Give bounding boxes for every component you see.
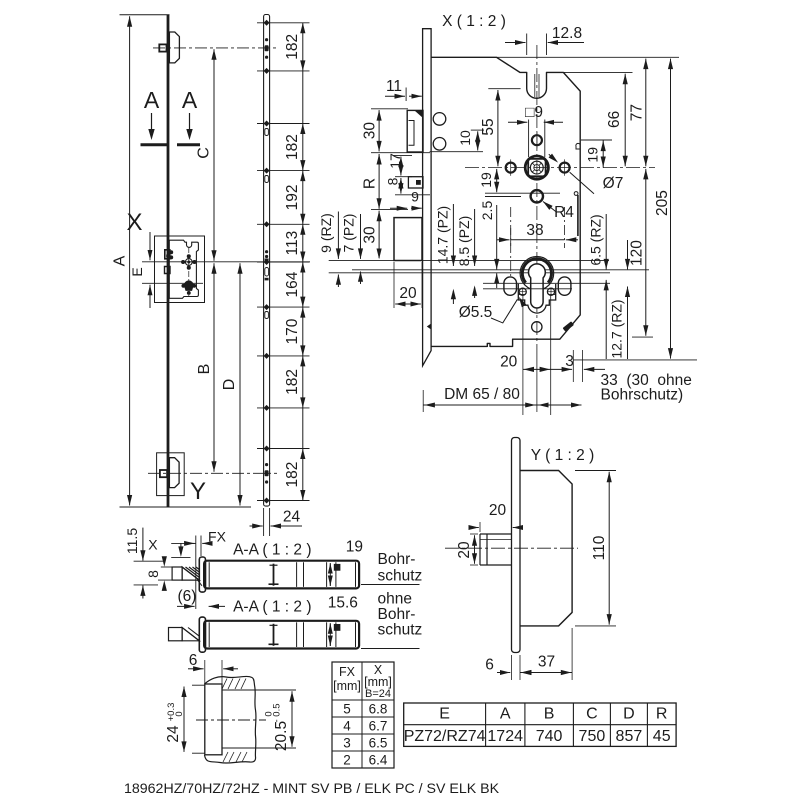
svg-text:14.7 (PZ): 14.7 (PZ)	[435, 206, 451, 264]
PZ reference line upper	[352, 269, 649, 271]
svg-text:164: 164	[284, 271, 301, 297]
lock faceplate (edge bar)	[423, 29, 432, 366]
auxiliary snib box	[408, 177, 423, 188]
svg-text:6.4: 6.4	[369, 753, 388, 768]
edge slot marks - hook 1	[265, 129, 269, 136]
mini cylinder side dots	[182, 284, 185, 287]
svg-text:20: 20	[500, 354, 518, 371]
dimension D line (857)	[239, 263, 241, 505]
dimension square 9 (spindle)	[508, 121, 527, 123]
Y center line (dash-dot)	[445, 547, 578, 549]
svg-text:30: 30	[362, 122, 379, 140]
section inner ribs	[208, 622, 210, 647]
svg-text:□9: □9	[525, 104, 543, 121]
section center pin	[273, 624, 275, 646]
rail front face (thick bar)	[167, 15, 170, 507]
dimension A line (overall height 1724)	[129, 16, 131, 505]
screw hole right	[547, 288, 554, 295]
dimension 2.5	[496, 205, 498, 258]
svg-text:192: 192	[284, 185, 301, 211]
svg-text:6.5: 6.5	[369, 736, 388, 751]
cylinder center line horizontal	[483, 282, 610, 284]
section body (case profile)	[204, 621, 359, 649]
section body (case profile)	[204, 561, 359, 589]
svg-text:6: 6	[485, 657, 494, 674]
dimension 20 (stem height) rotated	[470, 533, 478, 535]
hole below follower (R4)	[531, 190, 543, 202]
roller tangent line	[430, 151, 483, 153]
dimension 6 (Y faceplate)	[511, 655, 513, 680]
svg-text:110: 110	[591, 535, 608, 560]
svg-text:12.8: 12.8	[552, 25, 582, 42]
mini cylinder	[185, 281, 194, 290]
follower center lines	[465, 167, 655, 169]
dimension E line	[149, 247, 151, 260]
svg-text:24: 24	[165, 725, 182, 743]
svg-text:120: 120	[629, 240, 646, 266]
svg-text:10: 10	[457, 130, 473, 146]
dimension 9 (snib width)	[390, 207, 407, 209]
hatch marks top	[222, 679, 227, 690]
svg-text:D: D	[221, 379, 238, 391]
svg-text:A: A	[112, 255, 129, 266]
svg-text:17: 17	[387, 153, 403, 169]
svg-text:Bohr-: Bohr-	[378, 551, 416, 568]
svg-text:A-A ( 1 : 2 ): A-A ( 1 : 2 )	[233, 542, 311, 559]
dimension 10	[471, 129, 484, 131]
deadbolt bottom reference line	[329, 259, 609, 261]
svg-text:[mm]: [mm]	[333, 679, 361, 693]
edge slot marks - hook 3	[265, 312, 269, 319]
svg-text:4: 4	[343, 719, 351, 734]
Y keep body	[520, 471, 572, 626]
svg-text:6.7: 6.7	[369, 719, 388, 734]
dimension 110	[575, 470, 616, 472]
svg-text:schutz: schutz	[378, 622, 423, 639]
dimension 66	[563, 71, 632, 73]
square spindle extension lines	[528, 120, 530, 158]
mini snib box	[165, 267, 171, 274]
svg-text:5: 5	[343, 702, 351, 717]
svg-text:X: X	[148, 537, 158, 553]
top latch hook body	[169, 32, 179, 63]
svg-text:[mm]: [mm]	[364, 675, 392, 689]
svg-text:E: E	[129, 267, 145, 276]
svg-text:A: A	[144, 87, 160, 113]
X-area cylinder center line	[142, 282, 203, 284]
latch bolt section 2	[169, 628, 183, 641]
svg-text:857: 857	[616, 728, 643, 745]
svg-text:11.5: 11.5	[124, 528, 140, 554]
dimension 24 (rail width)	[263, 508, 265, 536]
Y bolt stem	[480, 534, 512, 565]
svg-text:8: 8	[385, 177, 401, 185]
leader d7	[549, 154, 556, 160]
top latch center line (dash-dot)	[153, 47, 277, 49]
dimension 6 (plate thickness)	[204, 660, 206, 684]
X-area handle center line	[142, 261, 310, 263]
edge slot marks - top latch	[265, 45, 269, 51]
main table row divider	[404, 724, 676, 726]
dimension 8 (latch height)	[163, 558, 165, 564]
dimension 9 (RZ)	[337, 212, 339, 250]
svg-text:3: 3	[565, 353, 574, 370]
mini hook pocket (dark)	[165, 250, 170, 259]
svg-text:A-A ( 1 : 2 ): A-A ( 1 : 2 )	[233, 599, 311, 616]
svg-text:750: 750	[579, 728, 606, 745]
svg-text:Ø7: Ø7	[603, 175, 624, 192]
svg-text:113: 113	[284, 231, 301, 256]
svg-text:18962HZ/70HZ/72HZ - MINT SV PB: 18962HZ/70HZ/72HZ - MINT SV PB / ELK PC …	[124, 781, 500, 797]
svg-text:77: 77	[628, 104, 645, 121]
section center pin	[273, 564, 275, 586]
Y stem inner line	[480, 539, 512, 541]
section arrow A left - arrow	[151, 113, 153, 131]
svg-text:9: 9	[411, 189, 419, 205]
dimension 17	[393, 154, 412, 156]
cylinder plate inner line	[518, 294, 524, 296]
edge view tick lines	[257, 22, 310, 24]
dimension 20 (cylinder screw)	[523, 368, 551, 370]
extension lines below cylinder	[522, 295, 524, 415]
cylinder slot center line	[483, 288, 572, 290]
hole above follower	[532, 135, 542, 145]
svg-text:55: 55	[480, 118, 497, 135]
svg-text:Bohrschutz): Bohrschutz)	[601, 387, 684, 404]
svg-text:E: E	[439, 706, 450, 723]
dimension 8	[395, 194, 430, 196]
lock case outline	[431, 57, 580, 346]
section faceplate bar	[199, 557, 205, 592]
svg-text:6.8: 6.8	[369, 702, 388, 717]
top latch small square stud	[159, 44, 166, 51]
deadbolt housing	[394, 218, 422, 261]
svg-text:6.5 (RZ): 6.5 (RZ)	[587, 214, 603, 265]
svg-text:B: B	[196, 364, 213, 375]
section inner ribs	[208, 562, 210, 587]
detail X boundary box	[155, 236, 205, 303]
dimension 37	[571, 628, 573, 680]
section faceplate bar	[199, 617, 205, 652]
svg-text:PZ72/RZ74: PZ72/RZ74	[404, 728, 486, 745]
FX table column divider	[361, 662, 363, 768]
rail edge profile	[264, 15, 270, 507]
dimension 7 (PZ)	[360, 214, 362, 249]
section arrow A right - arrow	[189, 113, 191, 131]
dimension 19 (follower to hole)	[496, 169, 498, 192]
svg-text:20: 20	[456, 541, 473, 559]
svg-text:19: 19	[585, 147, 601, 163]
faceplate weld mark	[427, 324, 431, 330]
svg-text:9 (RZ): 9 (RZ)	[318, 213, 334, 253]
svg-text:37: 37	[538, 654, 555, 671]
section dark block	[334, 564, 341, 571]
follower hub	[525, 156, 548, 179]
cylinder side slot left	[504, 277, 517, 295]
svg-text:B: B	[544, 706, 555, 723]
chain dimension line for hole spacing	[302, 23, 304, 71]
section cut plane A left (thick bar)	[141, 143, 168, 146]
hole right of follower (d7)	[560, 163, 570, 173]
profile cylinder keyway	[529, 264, 546, 308]
dimension 30 (deadbolt housing height)	[378, 211, 380, 259]
cylinder escutcheon plate	[518, 284, 555, 313]
svg-text:1724: 1724	[487, 728, 523, 745]
dimension 12.8 (notch width)	[526, 34, 528, 56]
strike center line	[196, 719, 266, 721]
svg-text:182: 182	[284, 34, 301, 60]
svg-text:3: 3	[343, 736, 351, 751]
svg-text:ohne: ohne	[378, 591, 412, 608]
screw hole left (d5.5)	[519, 288, 526, 295]
svg-text:38: 38	[526, 222, 543, 239]
svg-text:D: D	[623, 706, 635, 723]
mini cylinder cross line	[182, 285, 196, 287]
section inner height dim	[329, 563, 331, 570]
leader R4	[543, 202, 557, 213]
svg-text:15.6: 15.6	[328, 595, 358, 612]
FX table frame	[332, 662, 394, 768]
svg-text:45: 45	[653, 728, 671, 745]
svg-text:C: C	[586, 706, 598, 723]
bottom latch center line (dash-dot)	[148, 472, 277, 474]
svg-text:182: 182	[284, 462, 301, 488]
dimension 55	[488, 88, 520, 90]
dimension 120	[632, 336, 653, 338]
svg-text:DM 65 / 80: DM 65 / 80	[444, 386, 520, 403]
dimension B line (740)	[213, 263, 215, 472]
svg-text:R: R	[362, 178, 379, 189]
cylinder side slot right	[558, 277, 571, 295]
detail Y boundary box	[157, 453, 185, 496]
svg-text:740: 740	[536, 728, 563, 745]
Y faceplate bar	[512, 438, 521, 653]
svg-text:schutz: schutz	[378, 568, 423, 585]
chain dimension connector 70.9-123.5	[302, 71, 304, 124]
leader d5.5	[491, 299, 517, 323]
latch bolt section 1	[172, 567, 182, 580]
section cut plane A right (thick bar)	[177, 143, 200, 146]
mini follower vertical center line	[188, 247, 190, 296]
svg-text:24: 24	[283, 509, 301, 526]
svg-text:R4: R4	[554, 204, 574, 221]
hatch marks bottom	[223, 752, 228, 762]
hole below cylinder	[532, 322, 542, 332]
svg-text:A: A	[500, 706, 511, 723]
svg-text:- 0.5: - 0.5	[272, 703, 283, 722]
svg-text:R: R	[656, 706, 668, 723]
case top-right notch step	[576, 143, 580, 149]
svg-text:19: 19	[478, 172, 494, 188]
leader to section 2	[361, 648, 420, 650]
rail top reference line	[120, 14, 170, 16]
svg-text:Ø5.5: Ø5.5	[459, 304, 493, 321]
roller bolt lower	[433, 138, 446, 151]
bottom latch square stud	[160, 470, 167, 477]
dimension 11 (hook projection)	[405, 88, 407, 102]
mini hook rollers	[170, 251, 173, 254]
dimension 3 (bohrschutz)	[572, 350, 574, 382]
svg-text:X ( 1 : 2 ): X ( 1 : 2 )	[442, 13, 506, 30]
svg-text:X: X	[126, 209, 142, 236]
hole column center lines (dash)	[510, 207, 512, 277]
dimension 20 (deadbolt width)	[393, 262, 395, 308]
profile cylinder outer ring	[520, 257, 554, 291]
svg-text:182: 182	[284, 369, 301, 395]
dimension 77	[497, 56, 680, 58]
edge view node diamonds	[264, 20, 270, 26]
leader to section 1	[361, 584, 420, 586]
svg-text:FX: FX	[339, 665, 356, 679]
svg-text:8.5 (PZ): 8.5 (PZ)	[456, 216, 472, 267]
dimension 19 (right side)	[581, 139, 612, 141]
section inner height dim	[329, 623, 331, 630]
svg-text:7 (PZ): 7 (PZ)	[341, 214, 357, 253]
dimension 205	[573, 359, 697, 361]
svg-text:A: A	[182, 87, 198, 113]
svg-text:66: 66	[606, 111, 623, 128]
svg-text:Y: Y	[190, 478, 206, 505]
svg-text:B=24: B=24	[365, 688, 391, 700]
svg-text:30: 30	[362, 226, 379, 244]
svg-text:C: C	[196, 147, 213, 159]
dimension 20 (stem length)	[479, 522, 481, 532]
edge slot marks - hook 2	[265, 176, 269, 183]
main table column dividers	[485, 703, 487, 746]
dimension 20.5 0/-0.5	[222, 689, 296, 691]
svg-text:205: 205	[654, 190, 671, 216]
svg-text:2: 2	[343, 753, 351, 768]
svg-text:(6): (6)	[178, 588, 197, 605]
svg-text:11: 11	[386, 78, 402, 95]
mini follower satellite dots	[187, 255, 190, 258]
svg-text:2.5: 2.5	[479, 201, 495, 221]
roller bolt upper	[433, 113, 446, 126]
dimension DM 65 / 80	[422, 390, 424, 412]
frame wood outline (wavy)	[205, 676, 256, 763]
dimension 8.5 (PZ)	[474, 209, 476, 256]
svg-text:170: 170	[284, 318, 301, 344]
svg-text:FX: FX	[208, 529, 227, 545]
svg-text:19: 19	[346, 539, 363, 556]
dimension C line (750)	[213, 49, 215, 261]
drill-protection plate on rear edge	[577, 195, 579, 236]
strike plate section	[205, 684, 222, 755]
svg-text:8: 8	[145, 570, 161, 578]
dimension 11.5 (section)	[142, 528, 144, 551]
mini follower hub	[185, 259, 192, 266]
dimension 24 +0.3/0	[192, 684, 205, 686]
section dark block	[334, 624, 341, 631]
svg-text:12.7 (RZ): 12.7 (RZ)	[609, 299, 625, 358]
FX table row lines	[332, 699, 394, 701]
dimension 12.7 (RZ)	[627, 240, 629, 269]
svg-text:6: 6	[189, 652, 198, 669]
dimension R (vertical)	[378, 154, 380, 209]
svg-text:20: 20	[489, 502, 507, 519]
edge slot marks - center lock	[265, 250, 268, 253]
rear drain slot (slanted)	[563, 321, 575, 331]
svg-text:20.5: 20.5	[273, 721, 290, 751]
PZ reference line lower	[329, 272, 610, 274]
dimension 30 (hook housing height)	[371, 108, 408, 110]
svg-text:20: 20	[399, 285, 417, 302]
bottom latch body	[169, 458, 179, 488]
hole left of follower	[506, 163, 516, 173]
rail bottom reference line	[120, 506, 252, 508]
svg-text:Y ( 1 : 2 ): Y ( 1 : 2 )	[531, 447, 594, 464]
svg-text:Bohr-: Bohr-	[378, 606, 416, 623]
double line at lower hole	[485, 192, 560, 194]
dimension 38 (hole spacing)	[510, 228, 512, 246]
edge slot marks - bottom latch	[265, 470, 269, 476]
svg-text:0: 0	[174, 711, 185, 716]
svg-text:182: 182	[284, 134, 301, 160]
dimension 14.7 (PZ)	[452, 204, 454, 256]
dimension 6.5 (RZ)	[605, 214, 607, 269]
main table frame	[404, 703, 676, 746]
mini lock case outline	[169, 240, 198, 298]
hook bolt housing (retracted hook)	[407, 110, 423, 152]
